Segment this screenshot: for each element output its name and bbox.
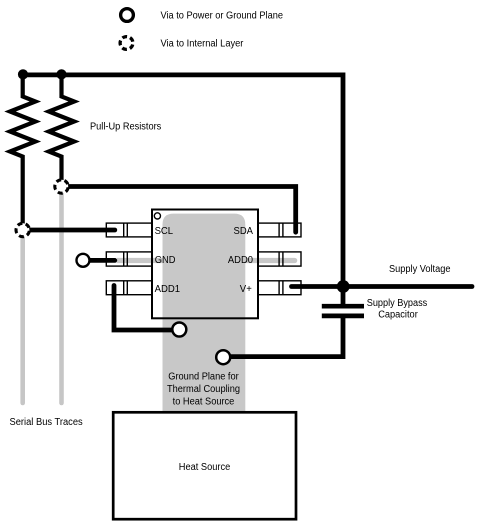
serial bus trace 2 (gray) — [59, 187, 64, 404]
svg-text:Pull-Up Resistors: Pull-Up Resistors — [90, 122, 161, 133]
svg-text:Serial Bus Traces: Serial Bus Traces — [10, 417, 83, 428]
svg-text:Ground Plane for: Ground Plane for — [168, 371, 239, 382]
via on SCL (dashed, internal layer) — [16, 223, 29, 236]
gray ADD0 trace out of ground plane — [240, 258, 295, 263]
legend via-to-internal-layer symbol — [120, 37, 133, 50]
serial bus trace 1 (gray) — [20, 230, 25, 403]
pin 1 indicator circle — [154, 213, 160, 219]
wire: thermal via to bypass capacitor bottom — [229, 316, 343, 357]
resistor R2 (pull-up) — [49, 75, 74, 187]
svg-text:Thermal Coupling: Thermal Coupling — [167, 384, 240, 395]
svg-text:Heat Source: Heat Source — [179, 462, 231, 473]
svg-text:to Heat Source: to Heat Source — [173, 396, 235, 407]
via on SDA (dashed, internal layer) — [55, 180, 68, 193]
junction dot at R2 top — [56, 69, 66, 79]
wire: supply voltage rail — [343, 284, 472, 289]
pin V+ (right, pin 4) — [258, 281, 301, 295]
pin SCL (left, pin 1) — [106, 223, 152, 237]
svg-text:V+: V+ — [240, 284, 252, 295]
svg-text:ADD0: ADD0 — [228, 255, 254, 266]
svg-text:Supply Voltage: Supply Voltage — [389, 264, 451, 275]
svg-text:SCL: SCL — [155, 226, 174, 237]
svg-text:ADD1: ADD1 — [155, 284, 181, 295]
ground plane thermal pad (gray) — [163, 214, 246, 412]
wire: V+ pin to supply rail — [292, 284, 344, 289]
pin GND (left, pin 2) — [106, 252, 152, 266]
via on ADD1 (solid ring) — [172, 323, 186, 337]
svg-text:Capacitor: Capacitor — [378, 309, 418, 320]
svg-text:GND: GND — [155, 255, 176, 266]
svg-text:Via to Power or Ground Plane: Via to Power or Ground Plane — [161, 11, 284, 22]
wire: top bus from resistors to supply rail corner — [23, 75, 343, 287]
junction dot at R1 top — [18, 69, 28, 79]
heat source box — [113, 412, 296, 519]
capacitor C1 top plate — [322, 304, 364, 309]
wire: junction to capacitor top plate — [341, 287, 346, 305]
pin ADD1 (left, pin 3) — [106, 281, 152, 295]
svg-text:SDA: SDA — [234, 226, 254, 237]
via on GND (solid ring) — [77, 254, 90, 267]
resistor R1 (pull-up) — [10, 75, 35, 230]
IC package U1 body — [152, 210, 258, 319]
junction dot at supply rail — [337, 280, 350, 293]
wire: ADD1 pin down to via — [114, 286, 173, 331]
thermal via to ground plane (solid ring) — [216, 350, 230, 364]
wire: SDA from via over top into pin — [62, 187, 296, 233]
svg-text:Via to Internal Layer: Via to Internal Layer — [161, 39, 245, 50]
wire: SCL from via to pin — [23, 228, 115, 233]
gray GND trace into ground plane — [117, 258, 170, 263]
capacitor C1 bottom plate — [322, 314, 364, 319]
pin SDA (right, pin 6) — [258, 223, 301, 237]
pin ADD0 (right, pin 5) — [258, 252, 301, 266]
wire: GND from via to pin — [90, 258, 115, 263]
legend via-to-power symbol — [121, 9, 134, 22]
svg-text:Supply Bypass: Supply Bypass — [367, 298, 428, 309]
